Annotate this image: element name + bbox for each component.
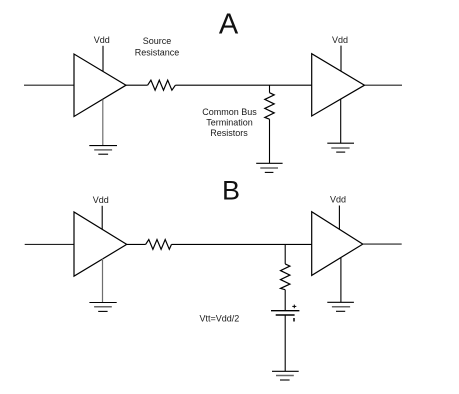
- battery V1 minus plate: [276, 314, 295, 316]
- resistor R1 (source resistance): [148, 80, 176, 90]
- wire bus (circuit A): [175, 84, 311, 86]
- wire junction down to R4: [284, 244, 286, 264]
- svg-text:Vtt=Vdd/2: Vtt=Vdd/2: [200, 313, 240, 323]
- resistor R2 (common bus termination): [265, 93, 274, 120]
- wire output (circuit A): [365, 84, 403, 86]
- svg-text:B: B: [222, 175, 240, 205]
- resistor R3 (source resistance B): [146, 240, 172, 250]
- buffer U2: [312, 54, 365, 116]
- Vdd stub wire (U4): [338, 206, 340, 230]
- svg-text:Resistors: Resistors: [210, 128, 248, 138]
- svg-text:A: A: [219, 9, 239, 41]
- ground (V1): [272, 371, 299, 380]
- buffer U3: [74, 212, 127, 276]
- svg-text:Vdd: Vdd: [93, 195, 109, 205]
- wire input (circuit A): [24, 84, 74, 86]
- ground (R2): [256, 163, 282, 172]
- ground stub wire (U2): [340, 99, 342, 143]
- svg-text:Resistance: Resistance: [135, 47, 180, 57]
- svg-text:Vdd: Vdd: [94, 35, 110, 45]
- ground (U4): [327, 302, 354, 311]
- wire U3 output to R3: [127, 243, 146, 245]
- wire bus (circuit B): [172, 243, 312, 245]
- wire output (circuit B): [363, 243, 402, 245]
- battery plus sign: [292, 305, 296, 309]
- ground (U3): [89, 303, 116, 312]
- buffer U4: [312, 212, 363, 276]
- ground (U1): [89, 146, 117, 155]
- ground (U2): [327, 143, 354, 152]
- svg-text:Common Bus: Common Bus: [202, 107, 257, 117]
- wire input (circuit B): [25, 243, 74, 245]
- buffer U1: [74, 54, 126, 117]
- wire battery to ground: [284, 315, 286, 371]
- Vdd stub wire (U2): [340, 46, 342, 71]
- ground stub wire (U3): [102, 259, 104, 303]
- svg-text:Termination: Termination: [206, 118, 253, 128]
- wire R4 to battery: [284, 290, 286, 311]
- resistor R4 (termination B): [281, 264, 290, 290]
- svg-text:Source: Source: [143, 36, 172, 46]
- wire R2 to ground: [269, 119, 271, 163]
- battery V1 plus plate: [271, 310, 299, 312]
- Vdd stub wire (U1): [102, 46, 104, 72]
- wire U1 output to R1: [126, 84, 148, 86]
- ground stub wire (U1): [102, 100, 104, 146]
- ground stub wire (U4): [340, 258, 342, 302]
- wire junction down to R2: [269, 85, 271, 93]
- Vdd stub wire (U3): [101, 206, 103, 229]
- svg-text:Vdd: Vdd: [330, 194, 346, 204]
- svg-text:Vdd: Vdd: [332, 35, 348, 45]
- battery minus mark: [293, 318, 295, 322]
